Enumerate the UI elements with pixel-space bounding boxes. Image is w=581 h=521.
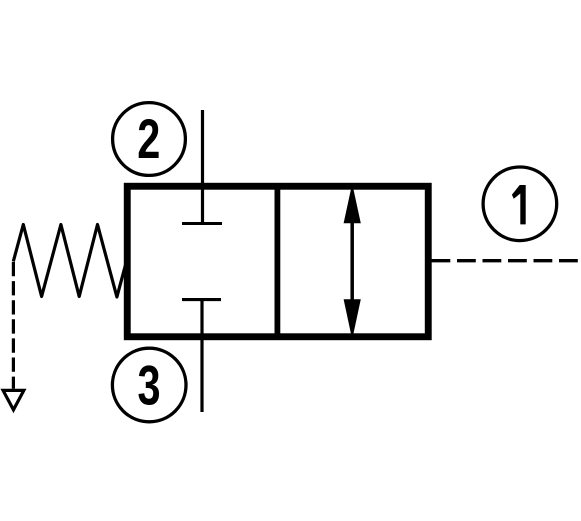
wire port 3 line: [200, 300, 203, 412]
flow arrow head up: [344, 184, 361, 224]
svg-text:3: 3: [137, 354, 160, 417]
svg-text:2: 2: [137, 108, 160, 171]
valve body center divider: [274, 183, 280, 340]
blocked port 2 bar: [182, 222, 222, 225]
port circle 1: [483, 167, 557, 241]
wire port 2 line: [201, 110, 204, 224]
spring: [13, 225, 127, 298]
port 1 dashed line: [432, 259, 580, 262]
label 1: [512, 185, 526, 224]
port circle 3: [112, 348, 186, 422]
drain pilot dashed line: [12, 262, 15, 389]
port circle 2: [113, 103, 186, 176]
drain arrow triangle: [0, 389, 26, 414]
blocked port 3 bar: [182, 298, 221, 301]
valve body outer frame: [127, 186, 428, 337]
flow arrow head down: [344, 299, 361, 339]
flow arrow shaft: [350, 220, 354, 302]
